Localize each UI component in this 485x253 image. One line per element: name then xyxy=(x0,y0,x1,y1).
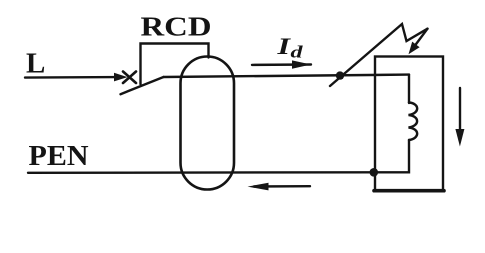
node PEN junction xyxy=(370,168,379,177)
inductor coil xyxy=(409,103,418,141)
wire PEN xyxy=(28,171,374,174)
return current arrow xyxy=(248,183,311,191)
svg-text:d: d xyxy=(291,43,304,62)
svg-text:I: I xyxy=(276,34,291,59)
arrow Id xyxy=(252,60,311,68)
RCD trip linkage bracket xyxy=(141,44,209,85)
svg-text:L: L xyxy=(26,48,45,80)
arrowhead on wire L xyxy=(114,73,128,82)
RCD sensing toroid xyxy=(181,57,235,190)
wire L to load xyxy=(164,75,410,77)
switch contact cross xyxy=(123,72,136,84)
label Id xyxy=(276,34,303,62)
wire L incoming xyxy=(25,76,117,79)
wire into load down xyxy=(408,75,410,103)
svg-text:PEN: PEN xyxy=(29,140,89,172)
load enclosure xyxy=(374,57,444,191)
wire coil return xyxy=(374,140,409,172)
node fault junction xyxy=(336,71,344,79)
svg-text:RCD: RCD xyxy=(141,12,212,42)
fault lightning arrow xyxy=(330,24,428,86)
switch blade xyxy=(121,77,164,94)
load current arrow xyxy=(455,88,464,147)
